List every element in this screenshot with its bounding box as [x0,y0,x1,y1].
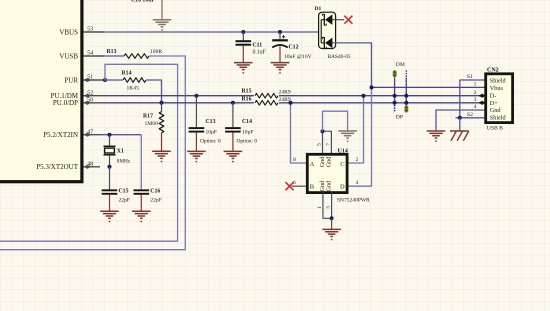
svg-text:3: 3 [325,206,331,209]
IC pin name VUSB [59,52,78,60]
ground (C15) [100,211,119,222]
label R13 [107,49,117,55]
value SN75240PWR [337,197,370,203]
resistor R15 [254,93,279,99]
junction R14/R17 on DP [160,101,164,105]
CN2 pin S1 label [467,74,473,80]
capacitor C15 [102,167,118,211]
capacitor C16 [134,190,150,211]
wire PU.0/DP [104,102,486,104]
CN2 text Vbus [490,85,504,92]
label C15 [119,188,129,194]
svg-text:S1: S1 [467,74,473,80]
IC pin name PUR [64,76,78,84]
U14 Gnd text 3 [319,180,326,192]
value 1K45 [127,86,140,92]
wire DP testpoint [405,78,407,106]
svg-text:R13: R13 [107,49,117,55]
svg-text:R17: R17 [143,113,153,119]
resistor R16 [254,100,279,106]
svg-text:6: 6 [293,180,296,186]
svg-text:USB B: USB B [487,126,503,132]
svg-text:BAS40-05: BAS40-05 [328,54,351,60]
ground (C16) [132,211,151,222]
pin number 48 [87,161,93,167]
junction TP-DP on D+ [404,101,408,105]
pin number 53 [87,27,93,33]
junction S2 [458,116,462,120]
wire DP to U14 pin A [291,103,308,163]
wire S2 to chassis ground [459,118,461,131]
U14 pin B stub [292,185,308,187]
value 22pF (C16) [150,197,162,203]
junction TP-DM on D- [393,94,397,98]
svg-text:C11: C11 [253,42,263,48]
svg-text:P5.3/XT2OUT: P5.3/XT2OUT [36,163,79,171]
label U14 [338,148,348,154]
IC pin name P5.3/XT2OUT [36,163,79,171]
svg-text:PUR: PUR [64,76,78,84]
svg-text:C13: C13 [206,119,216,125]
value 10uF @16V [284,54,312,60]
value 10pF (C13) [206,129,218,135]
capacitor C11 [236,32,252,62]
CN2 text D+ [490,100,498,107]
junction D1/Vbus [370,85,374,89]
junction X1 top [108,133,112,137]
U14 Gnd text 2 [325,156,332,168]
wire R13 loop [0,56,185,250]
ground (C11) [234,63,253,74]
svg-text:X1: X1 [117,149,124,155]
text Option: 0 (C13) [200,138,221,144]
U14 bottom pins 1,3 wires [323,193,332,219]
svg-text:22pF: 22pF [119,197,131,203]
diode D1 body [319,12,336,49]
wire pin47 to corner [100,134,141,136]
pin number 50 [87,97,93,103]
ground (R17) [152,151,171,162]
IC U14 body [307,154,347,192]
wire R14 to DP [146,80,162,103]
CN2 text D- [490,93,497,100]
svg-text:10uF @16V: 10uF @16V [284,54,312,60]
svg-text:22pF: 22pF [150,197,162,203]
label C11 [253,42,263,48]
svg-text:24R9: 24R9 [279,89,291,95]
wire Gnd pin 4 [436,110,486,131]
svg-text:10pF: 10pF [206,129,218,135]
junction C14 on DP [231,101,235,105]
ground (C12) [271,63,290,74]
pin number 7 [326,143,332,146]
label D1 [315,6,322,12]
svg-text:R14: R14 [122,71,132,77]
svg-text:Shield: Shield [490,77,507,84]
wire Vbus/D1 to U14 pin D [348,87,372,186]
svg-text:1M00: 1M00 [145,121,159,127]
label R16 [242,97,252,103]
dotted stub above DP column [406,70,408,77]
label DP [396,114,403,120]
junction TP-DM on D+ [393,101,397,105]
clipped label above top edge [131,0,155,4]
no-ERC cross on D1 pin [344,16,352,24]
pin 54 stub [84,55,105,57]
svg-text:D+: D+ [490,100,498,107]
ground (U14 bottom) [322,229,341,240]
svg-text:D-: D- [490,93,497,100]
svg-text:VUSB: VUSB [59,52,78,60]
U14 top pins 5,7 wires [323,131,332,154]
label CN2 [487,67,499,73]
CN2 pin 1 label [474,82,477,88]
value 0.1uF [253,50,267,56]
svg-text:DM: DM [396,62,405,68]
label USB B [487,126,503,132]
svg-text:CN2: CN2 [487,67,499,73]
value 24R9 (R15) [279,89,291,95]
CN2 text Shield (bottom) [490,115,507,122]
connector CN2 body [486,74,513,123]
junction C11 [241,30,245,34]
label C12 [289,45,299,51]
D1 top pin (no connect) [332,19,344,21]
wire VBUS [104,31,321,33]
pin 50 stub [84,101,105,105]
label R14 [122,71,132,77]
svg-text:DP: DP [396,114,403,120]
svg-text:1: 1 [317,206,323,209]
crystal X1 [104,135,116,167]
label R17 [143,113,153,119]
CN2 pin 2 label [474,90,477,96]
CN2 pin 3 label [474,97,477,103]
svg-text:Option: 0: Option: 0 [237,138,258,144]
pin 51 stub [84,78,105,82]
svg-text:C10 10uF: C10 10uF [131,0,155,4]
svg-text:C12: C12 [289,45,299,51]
capacitor C14 [225,103,241,151]
ground (C13) [187,151,206,162]
wire DM testpoint [394,77,396,103]
label DM [396,62,405,68]
CN2 pin S2 label [467,112,473,118]
pin 48 stub [84,165,101,169]
junction U14 A on DP [289,101,293,105]
label C13 [206,119,216,125]
value BAS40-05 [328,54,351,60]
resistor R13 [124,54,149,59]
svg-text:U14: U14 [338,148,348,154]
pin number 4 [356,180,359,186]
wire Vbus to CN2 [372,86,487,88]
svg-text:P5.2/XT2IN: P5.2/XT2IN [43,131,78,139]
junction U14 pins 1/3 [330,216,334,220]
IC pin name VBUS [59,28,78,36]
value 1M00 [145,121,159,127]
svg-text:VBUS: VBUS [59,28,78,36]
no-ERC cross on U14 pin B [286,182,294,190]
junction U14 pins 5/7 [321,129,325,133]
svg-text:10pF: 10pF [242,129,254,135]
IC pin name PU.1/DM [51,92,79,100]
CN2 text Shield (top) [490,77,507,84]
junction TP-DP on D- [404,94,408,98]
svg-text:R15: R15 [242,88,252,94]
U14 Gnd text 1 [319,156,326,168]
pin number 6 [293,180,296,186]
value 22pF (C15) [119,197,131,203]
ground (top, near IC) [153,20,172,31]
chassis ground (CN2 shield) [450,131,469,141]
U14 pin B label [310,184,314,191]
svg-text:100R: 100R [150,49,162,55]
pin number 1 [317,206,323,209]
svg-text:1: 1 [474,82,477,88]
pin number 8 [293,157,296,163]
pin number 2 [356,157,359,163]
wire S1 to S2 [460,80,486,118]
svg-text:0.1uF: 0.1uF [253,50,267,56]
junction PUR [103,78,107,82]
resistor R17 [159,103,164,151]
svg-text:C: C [340,161,344,168]
testpoint DM [393,70,397,77]
U14 Gnd text 4 [325,180,332,192]
pin number 5 [317,143,323,146]
svg-text:5: 5 [317,143,323,146]
wire PUR to R14 [104,79,123,81]
resistor R14 [123,78,146,83]
value 100R [150,49,162,55]
capacitor C12 [272,32,288,62]
CN2 pin 2 arrows [479,94,486,98]
testpoint DP [404,106,408,113]
U14 pin D label [340,184,345,191]
svg-text:C15: C15 [119,188,129,194]
svg-text:PU.0/DP: PU.0/DP [53,99,78,107]
svg-text:S2: S2 [467,112,473,118]
pin 47 stub [84,133,101,137]
dotted stub below DM column [394,105,396,112]
wire U14 bottom to ground [331,218,333,229]
value 10pF (C14) [242,129,254,135]
svg-text:D1: D1 [315,6,322,12]
wire D- to U14 pin C [348,96,364,163]
svg-text:B: B [310,184,314,191]
label C16 [150,188,160,194]
svg-text:4: 4 [356,180,359,186]
value 8MHz [117,159,131,165]
svg-text:R16: R16 [242,97,252,103]
junction U14 C on DM [362,94,366,98]
pin number 47 [87,129,93,135]
svg-text:Gnd: Gnd [325,156,332,168]
svg-text:7: 7 [326,143,332,146]
wire VUSB to R13 [104,55,124,57]
U14 pin A label [310,161,315,168]
wire to top ground [161,0,163,19]
junction C12 [278,30,282,34]
value 24R9 (R16) [279,97,291,103]
pin 53 stub [84,31,105,33]
wire corner to C16 [140,135,142,190]
junction X1 bottom [108,165,112,169]
wire PU.1/DM [104,95,486,97]
ground (CN2 Gnd) [427,131,446,142]
label X1 [117,149,124,155]
wire S2 [456,117,487,119]
label R15 [242,88,252,94]
svg-text:Gnd: Gnd [325,180,332,192]
pin number 54 [87,51,93,57]
IC pin name PU.0/DP [53,99,78,107]
svg-text:A: A [310,161,315,168]
svg-text:4: 4 [474,104,477,110]
svg-text:2: 2 [356,157,359,163]
label C14 [242,119,252,125]
junction D1 [319,30,323,34]
svg-text:Option: 0: Option: 0 [200,138,221,144]
CN2 text Gnd [490,107,502,114]
junction C13 on DM [194,94,198,98]
svg-text:Shield: Shield [490,115,507,122]
svg-text:2: 2 [474,90,477,96]
pin number 51 [87,75,93,81]
svg-text:Vbus: Vbus [490,85,504,92]
D1 bottom pin wire [332,43,371,88]
U14 pin C label [340,161,344,168]
svg-text:1K45: 1K45 [127,86,140,92]
wire PUR loop [0,64,178,241]
svg-text:SN75240PWR: SN75240PWR [337,197,370,203]
svg-text:C14: C14 [242,119,252,125]
wire U14 top to ground [323,111,348,131]
pin 52 stub [84,94,105,98]
text Option: 0 (C14) [237,138,258,144]
pin number 52 [87,90,93,96]
IC pin name P5.2/XT2IN [43,131,78,139]
svg-text:D: D [340,184,345,191]
ground (C14) [224,151,243,162]
ground (U14 top) [338,131,357,142]
svg-text:Gnd: Gnd [490,107,502,114]
pin number 3 [325,206,331,209]
svg-text:C16: C16 [150,188,160,194]
svg-text:8MHz: 8MHz [117,159,131,165]
svg-text:8: 8 [293,157,296,163]
IC U13 (partial, left edge) [0,0,82,182]
CN2 pin 4 label [474,104,477,110]
svg-text:3: 3 [474,97,477,103]
CN2 pin 3 arrows [479,101,486,105]
capacitor C13 [189,96,205,152]
